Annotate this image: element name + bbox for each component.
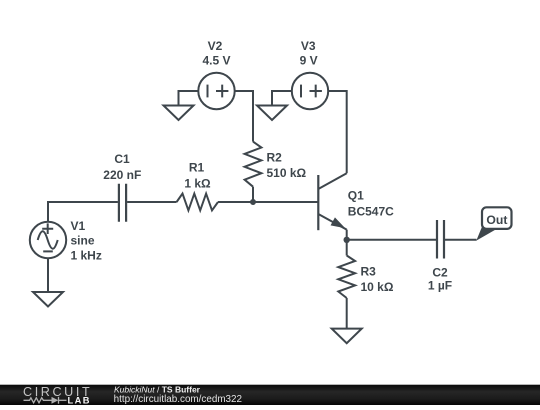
svg-text:sine: sine xyxy=(71,234,95,248)
svg-text:1 µF: 1 µF xyxy=(428,279,452,293)
wire node B to R3 xyxy=(346,240,348,256)
wire C1 to R1 xyxy=(127,201,177,203)
wire V2 minus to ground xyxy=(179,91,199,106)
label R1 1 kOhm xyxy=(184,161,211,191)
svg-text:10 kΩ: 10 kΩ xyxy=(361,280,394,294)
svg-text:R1: R1 xyxy=(189,161,205,175)
svg-text:C2: C2 xyxy=(432,265,448,279)
label C1 220 nF xyxy=(103,152,141,182)
svg-text:KubickiNut / TS Buffer: KubickiNut / TS Buffer xyxy=(114,384,201,394)
wire V2 plus to R2 top xyxy=(235,91,253,142)
wire V1 bottom to ground xyxy=(47,258,49,292)
wire R1 to Q1 base xyxy=(218,201,318,203)
svg-text:510 kΩ: 510 kΩ xyxy=(267,166,307,180)
svg-text:4.5 V: 4.5 V xyxy=(202,54,230,68)
Out flag xyxy=(476,207,511,240)
label Out xyxy=(486,213,507,227)
svg-text:C1: C1 xyxy=(114,152,130,166)
svg-text:220 nF: 220 nF xyxy=(103,168,141,182)
wire V3 minus to ground xyxy=(272,91,292,106)
svg-text:Q1: Q1 xyxy=(348,189,364,203)
svg-text:1 kHz: 1 kHz xyxy=(71,249,102,263)
label R2 510 kOhm xyxy=(267,151,307,181)
wire node B to C2 xyxy=(347,239,436,241)
CircuitLab logo text LAB xyxy=(68,395,91,405)
wire C2 to Out flag xyxy=(445,239,477,241)
transistor Q1 xyxy=(318,173,346,230)
node A junction dot xyxy=(250,199,256,205)
svg-text:http://circuitlab.com/cedm322: http://circuitlab.com/cedm322 xyxy=(114,394,242,405)
label V2 4.5 V xyxy=(202,39,230,68)
voltage source V3 xyxy=(292,73,328,109)
wire Q1 emitter to node B xyxy=(346,230,348,240)
label Q1 BC547C xyxy=(348,189,394,219)
footer title KubickiNut / TS Buffer xyxy=(114,384,201,394)
resistor R2 xyxy=(245,142,262,187)
capacitor C1 xyxy=(119,184,126,222)
ground under V1 xyxy=(33,292,63,307)
ground under V3 xyxy=(257,106,287,121)
svg-text:R2: R2 xyxy=(267,151,283,165)
resistor R3 xyxy=(338,256,355,299)
CircuitLab logo resistor-diode squiggle xyxy=(24,397,67,404)
svg-text:V2: V2 xyxy=(208,39,223,53)
voltage source V1 (sine) xyxy=(30,222,66,258)
svg-text:BC547C: BC547C xyxy=(348,205,394,219)
svg-text:LAB: LAB xyxy=(68,395,91,405)
svg-text:Out: Out xyxy=(486,213,507,227)
svg-text:R3: R3 xyxy=(361,264,377,278)
voltage source V2 xyxy=(198,73,234,109)
wire V3 plus to Q1 collector xyxy=(328,91,347,173)
node B junction dot xyxy=(344,237,350,243)
ground under R3 xyxy=(332,329,362,344)
label R3 10 kOhm xyxy=(361,264,394,294)
svg-text:9 V: 9 V xyxy=(300,54,318,68)
resistor R1 xyxy=(177,194,218,211)
label V1 sine 1 kHz xyxy=(71,219,102,263)
CircuitLab logo text CIRCUIT xyxy=(23,385,92,399)
svg-text:1 kΩ: 1 kΩ xyxy=(184,176,211,190)
svg-text:V3: V3 xyxy=(301,39,316,53)
wire R3 to ground xyxy=(346,298,348,329)
label V3 9 V xyxy=(300,39,318,68)
wire V1 top to C1 xyxy=(48,202,118,222)
svg-text:V1: V1 xyxy=(71,219,86,233)
ground under V2 xyxy=(164,106,194,121)
footer bar xyxy=(0,385,540,405)
label C2 1 uF xyxy=(428,265,452,292)
capacitor C2 xyxy=(437,220,444,259)
wire R2 bottom to node A xyxy=(252,187,254,202)
footer url xyxy=(114,394,242,405)
